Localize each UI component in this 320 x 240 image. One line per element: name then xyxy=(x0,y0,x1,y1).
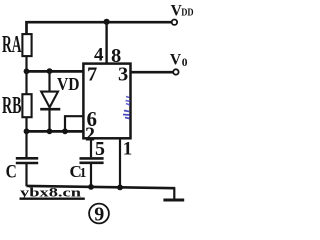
wire node A to pin 7 xyxy=(25,70,83,73)
wire node B to capacitor C xyxy=(25,131,27,157)
watermark blue mark lower xyxy=(123,111,130,119)
capacitor C1 xyxy=(80,158,104,162)
svg-text:C: C xyxy=(6,163,17,183)
node diode-anode junction dot xyxy=(47,68,53,74)
svg-text:DD: DD xyxy=(181,7,194,18)
node pin1-ground junction dot xyxy=(117,185,123,191)
svg-text:3: 3 xyxy=(118,64,128,86)
wire pins 4,8 to VDD rail xyxy=(105,22,107,64)
wire node B to pin 2 xyxy=(25,130,83,133)
wire capacitor C1 to ground rail xyxy=(90,164,92,187)
node B junction dot xyxy=(24,128,30,134)
node diode-cathode junction dot xyxy=(47,128,53,134)
watermark blue mark upper xyxy=(126,97,131,106)
svg-text:4: 4 xyxy=(94,45,104,66)
svg-text:1: 1 xyxy=(123,139,133,160)
diode VD xyxy=(40,70,60,131)
node C1-ground junction dot xyxy=(88,184,94,190)
wire VDD rail xyxy=(27,22,172,33)
svg-text:7: 7 xyxy=(87,64,97,86)
wire capacitor C to ground rail xyxy=(25,164,27,186)
resistor RA xyxy=(22,34,31,56)
watermark underline xyxy=(20,198,85,200)
wire pin 1 to ground rail xyxy=(119,139,121,188)
IC U1 555 timer box xyxy=(83,64,130,139)
wire RA bottom to node A xyxy=(25,56,27,71)
svg-text:1: 1 xyxy=(80,166,87,181)
ground symbol xyxy=(163,187,184,200)
wire pin 5 to capacitor C1 xyxy=(90,139,92,158)
wire pin 3 to Vo xyxy=(131,71,174,74)
node pin6-branch junction dot xyxy=(62,128,68,134)
svg-text:RA: RA xyxy=(2,32,22,58)
ground rail wire xyxy=(27,186,176,188)
svg-text:V: V xyxy=(170,51,182,68)
terminal Vo xyxy=(173,69,178,74)
wire RB bottom to node B xyxy=(25,117,27,132)
svg-text:0: 0 xyxy=(182,57,188,69)
capacitor C xyxy=(16,158,38,163)
terminal VDD xyxy=(172,20,177,25)
junction dot pins4-8 rail xyxy=(104,19,110,25)
svg-text:RB: RB xyxy=(2,93,22,119)
wire pin 6 branch xyxy=(65,116,83,131)
svg-text:5: 5 xyxy=(95,138,105,160)
svg-text:VD: VD xyxy=(57,74,80,94)
figure number 9 circle xyxy=(89,204,109,224)
node A junction dot xyxy=(24,68,30,74)
wire node A to RB xyxy=(25,71,27,94)
svg-text:ybx8.cn: ybx8.cn xyxy=(20,185,81,199)
resistor RB xyxy=(22,94,31,117)
svg-text:9: 9 xyxy=(94,203,104,225)
